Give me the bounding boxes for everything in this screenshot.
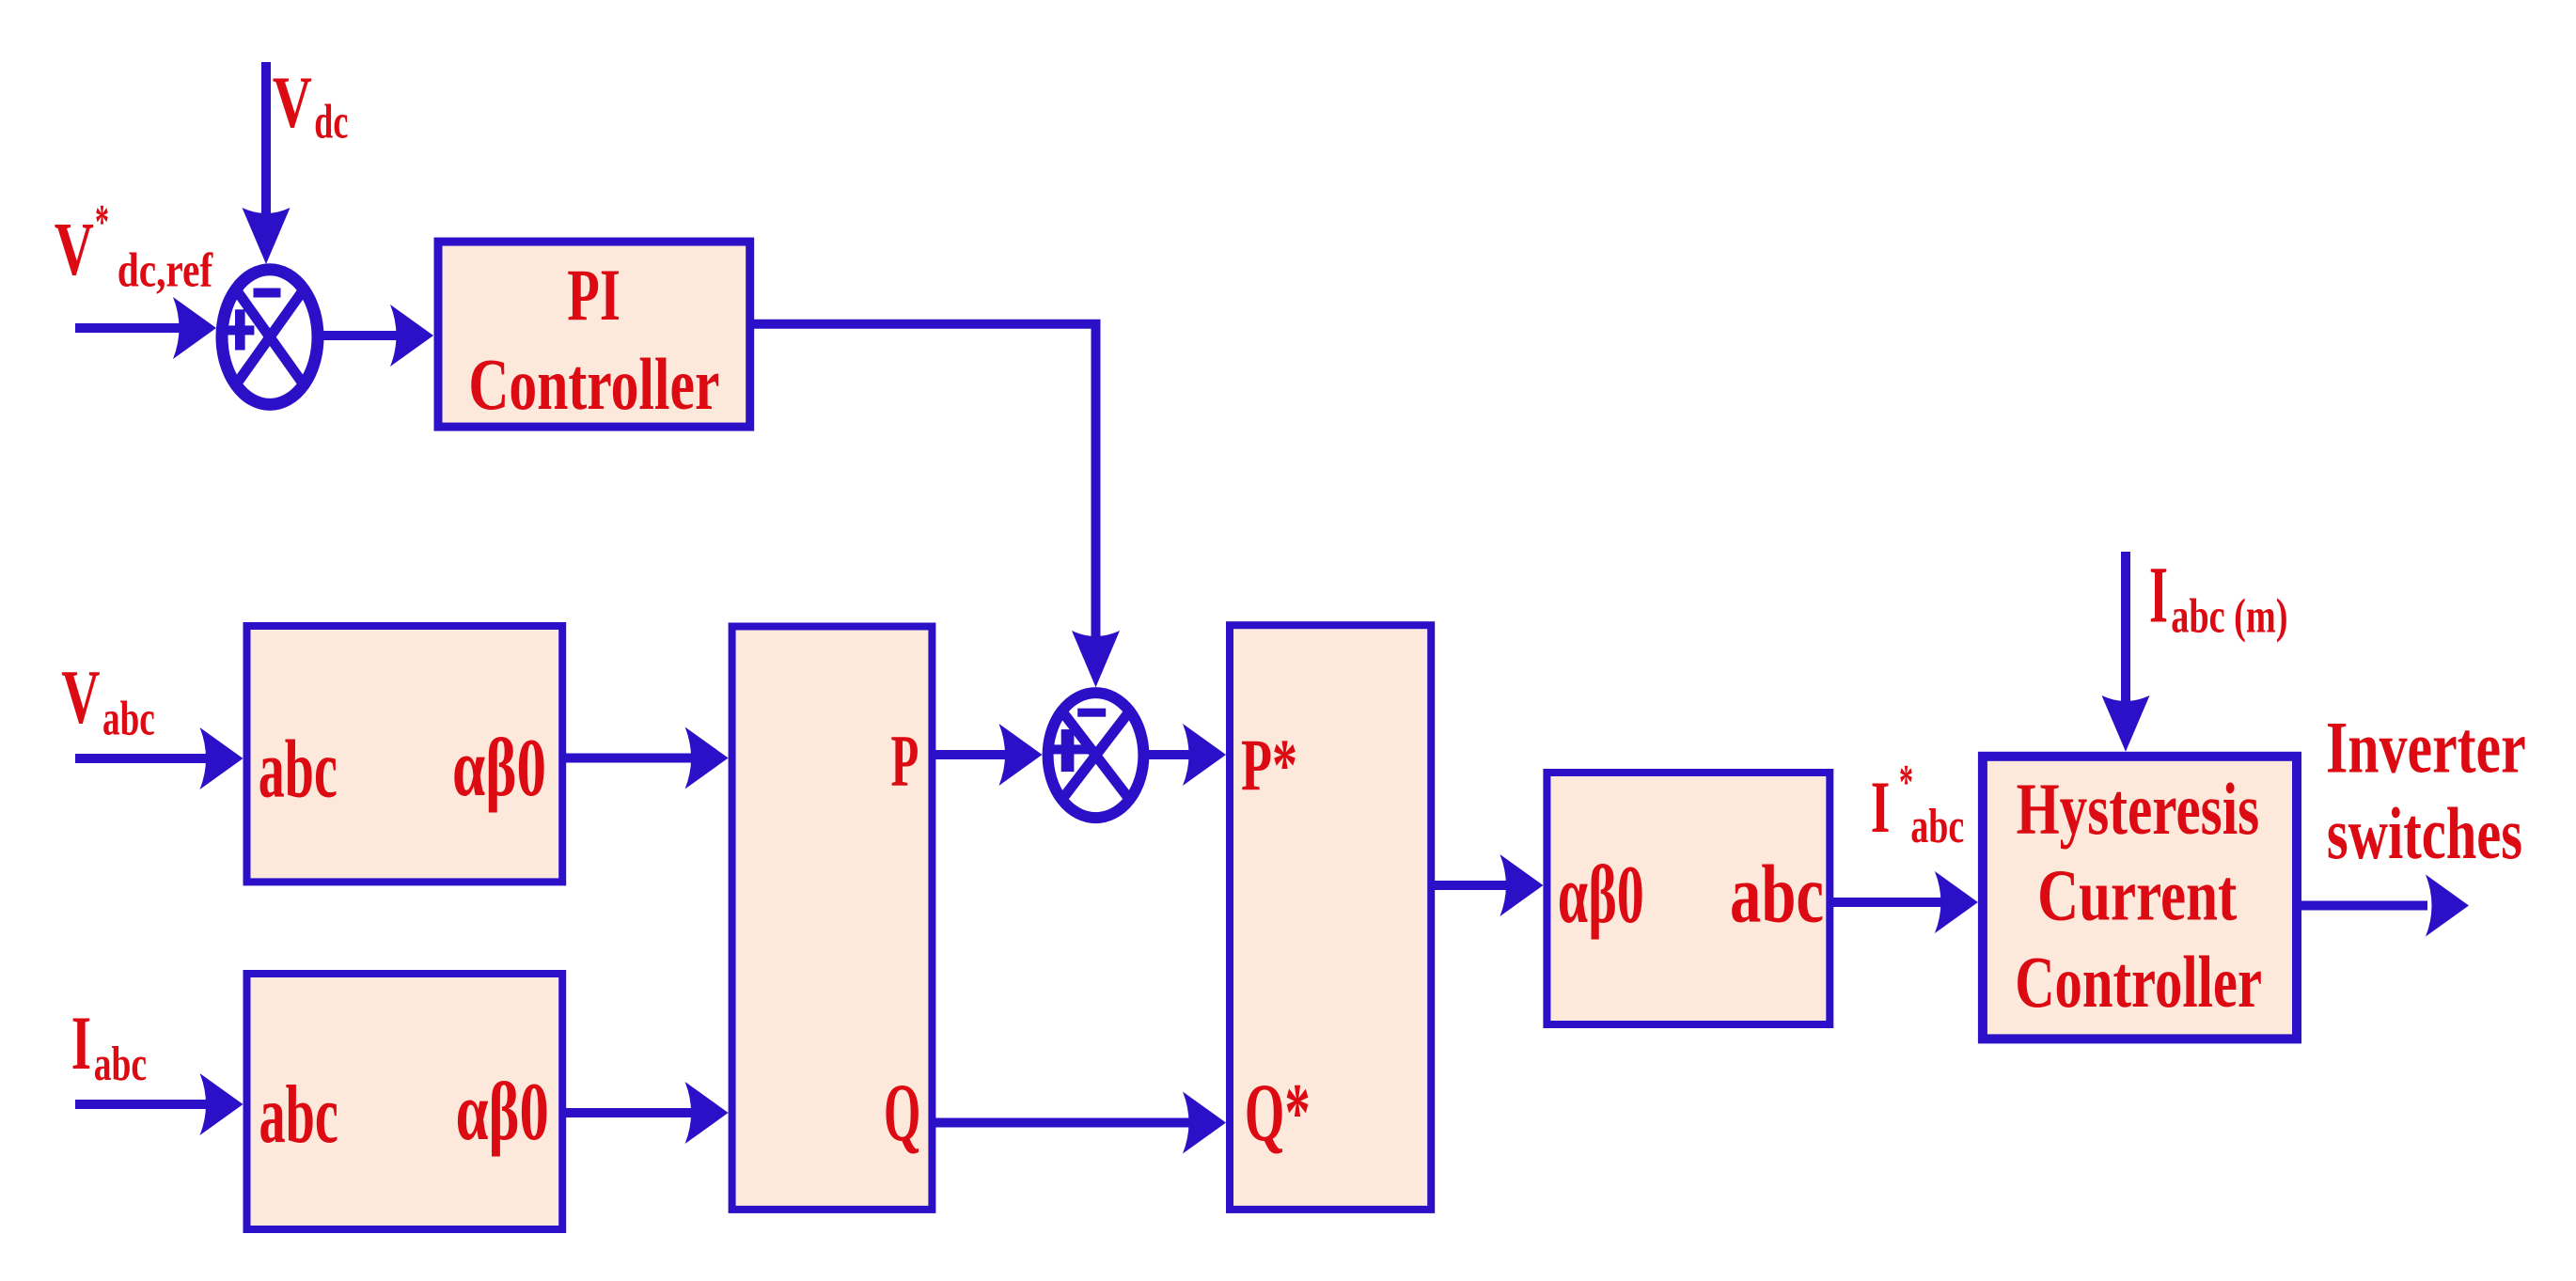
svg-text:αβ0: αβ0 — [452, 723, 546, 814]
block alpha-beta-0 to abc — [1547, 773, 1830, 1024]
arrowhead input junction 1 — [173, 297, 216, 359]
wire ab0-abc box to hysteresis controller — [1833, 898, 1946, 907]
label I*abc — [1871, 756, 1965, 853]
block P* Q* (tall box 2) — [1230, 625, 1431, 1210]
wire V*dc,ref input into summing junction 1 — [75, 323, 184, 333]
svg-text:Q*: Q* — [1245, 1068, 1311, 1159]
label Vdc — [273, 61, 349, 149]
wire box1 to PQ block — [566, 754, 696, 763]
arrowhead into PQ block bottom — [685, 1082, 729, 1144]
svg-text:αβ0: αβ0 — [1558, 850, 1644, 941]
block PI Controller — [438, 242, 750, 427]
svg-text:Controller: Controller — [468, 343, 719, 425]
arrowhead output to inverter switches — [2426, 875, 2469, 937]
wire Q output to Q* — [935, 1118, 1194, 1128]
arrowhead down into hysteresis controller — [2102, 695, 2150, 752]
arrowhead into ab0-abc box — [1500, 854, 1543, 916]
arrowhead into P* — [1183, 724, 1226, 786]
svg-text:Hysteresis: Hysteresis — [2017, 768, 2260, 850]
arrowhead into PQ block top — [685, 727, 729, 789]
arrowhead into Q* — [1183, 1092, 1226, 1154]
block P Q calculation (tall box 1) — [732, 627, 933, 1210]
svg-text:abc: abc — [1910, 800, 1964, 853]
block abc to alpha-beta-0 (top) — [247, 626, 563, 882]
svg-text:P: P — [891, 719, 919, 801]
block Hysteresis Current Controller — [1983, 757, 2297, 1039]
svg-text:abc (m): abc (m) — [2171, 589, 2287, 643]
svg-text:P*: P* — [1241, 724, 1297, 805]
svg-text:dc: dc — [314, 96, 348, 149]
svg-text:Controller: Controller — [2015, 941, 2262, 1023]
wire hysteresis output — [2301, 901, 2427, 911]
svg-text:*: * — [95, 195, 109, 249]
svg-text:abc: abc — [1730, 850, 1824, 941]
svg-text:Inverter: Inverter — [2326, 706, 2526, 788]
svg-text:dc,ref: dc,ref — [118, 244, 213, 298]
svg-text:V: V — [273, 61, 312, 143]
block abc to alpha-beta-0 (bottom) — [247, 974, 563, 1229]
svg-text:I: I — [2149, 550, 2168, 640]
label V*dc,ref — [55, 195, 213, 298]
arrowhead Iabc into abc-ab0 box 2 — [200, 1073, 243, 1135]
svg-text:abc: abc — [259, 725, 338, 816]
arrowhead into PI controller — [390, 305, 433, 367]
svg-text:V: V — [61, 654, 100, 740]
svg-text:Current: Current — [2037, 853, 2237, 935]
wire junction 1 to PI controller — [321, 331, 400, 340]
svg-text:switches: switches — [2327, 792, 2522, 874]
arrowhead into hysteresis controller — [1935, 871, 1978, 933]
arrowhead down into junction 2 — [1072, 631, 1120, 687]
svg-text:abc: abc — [94, 1038, 147, 1091]
svg-text:Q: Q — [884, 1068, 920, 1159]
wire box2 to PQ block — [566, 1108, 696, 1117]
wire tall box 2 to alpha-beta-0/abc box — [1435, 881, 1512, 890]
arrowhead Vabc into abc-ab0 box 1 — [200, 727, 243, 789]
arrowhead Vdc down — [243, 208, 291, 264]
svg-text:abc: abc — [102, 693, 155, 746]
arrowhead P into junction 2 — [999, 724, 1043, 786]
label Iabc — [71, 1000, 147, 1091]
svg-text:V: V — [55, 209, 94, 291]
svg-text:PI: PI — [567, 254, 620, 336]
wire PI output right then down to summing junction 2 — [754, 324, 1096, 637]
wire Vabc input — [75, 754, 212, 763]
wire Iabc(m) down into hysteresis controller — [2121, 552, 2130, 716]
svg-text:I: I — [71, 1000, 91, 1086]
summing junction 2 — [1048, 693, 1144, 818]
svg-text:abc: abc — [259, 1070, 338, 1161]
svg-text:I: I — [1871, 766, 1891, 848]
label Iabc(m) — [2149, 550, 2288, 644]
label Vabc — [61, 654, 155, 746]
wire Vdc vertical into summing junction 1 — [261, 62, 271, 216]
wire junction 2 to P* — [1143, 750, 1194, 759]
wire Iabc input — [75, 1100, 212, 1109]
svg-text:αβ0: αβ0 — [456, 1067, 549, 1158]
summing junction 1 — [222, 270, 318, 405]
label Inverter switches — [2326, 706, 2526, 874]
wire P output to junction 2 — [935, 750, 1008, 759]
